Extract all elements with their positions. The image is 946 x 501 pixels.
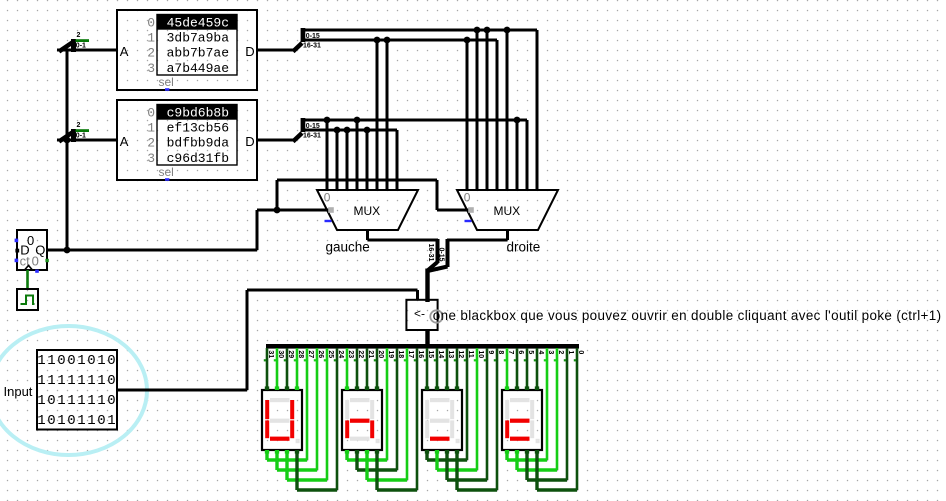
wire S3 leg corner x537 (536, 30, 539, 190)
svg-text:1: 1 (37, 373, 45, 389)
svg-text:abb7b7ae: abb7b7ae (167, 46, 229, 61)
svg-text:4: 4 (537, 350, 544, 354)
wire bus bit 17 (404, 348, 414, 480)
wire bus bit 11 (464, 348, 474, 460)
wire counter Q to muxes (47, 210, 330, 250)
wire bus bit 20 (374, 348, 384, 390)
svg-text:<-: <- (414, 306, 425, 320)
splitter S4 ROM U2 output (293, 118, 527, 142)
svg-text:24: 24 (337, 350, 344, 358)
svg-text:0: 0 (324, 191, 331, 205)
svg-text:13: 13 (447, 350, 454, 358)
wire bus bit 14 (434, 348, 444, 390)
svg-text:1: 1 (147, 121, 155, 136)
svg-text:1: 1 (37, 393, 45, 409)
svg-text:10: 10 (477, 350, 484, 358)
counter U3 (15, 230, 49, 273)
junction S3 x467 (464, 37, 471, 190)
blackbox U4 (406, 300, 437, 330)
svg-text:45de459c: 45de459c (167, 16, 229, 31)
svg-text:1: 1 (567, 350, 574, 354)
svg-text:0-1: 0-1 (76, 132, 86, 139)
wire S4 leg corner x397 (396, 130, 399, 190)
svg-text:sel: sel (159, 165, 174, 179)
wire bus bit 7 (504, 348, 514, 390)
splitter S3 ROM U1 output (293, 28, 537, 52)
svg-text:9: 9 (487, 350, 494, 354)
svg-text:1: 1 (67, 393, 75, 409)
svg-text:D: D (245, 44, 254, 59)
svg-text:12: 12 (457, 350, 464, 358)
svg-text:2: 2 (147, 46, 155, 61)
svg-text:17: 17 (407, 350, 414, 358)
svg-text:1: 1 (147, 31, 155, 46)
svg-text:1: 1 (87, 413, 95, 429)
svg-text:D: D (245, 134, 254, 149)
wire bus bit 15 (424, 348, 434, 390)
wire select to right mux (277, 180, 470, 210)
wire display 2 bottom pins wrap (345, 450, 417, 490)
wire ROM U2 D output (257, 139, 294, 142)
svg-text:6: 6 (517, 350, 524, 354)
svg-text:one blackbox que vous pouvez o: one blackbox que vous pouvez ouvrir en d… (433, 308, 942, 323)
wire bus bit 4 (534, 348, 544, 390)
svg-text:1: 1 (77, 373, 85, 389)
junction S3 x387 (384, 37, 391, 190)
wire bus bit 12 (454, 348, 464, 390)
wire bus bit 26 (314, 348, 324, 470)
svg-text:droite: droite (507, 240, 541, 255)
svg-text:MUX: MUX (494, 204, 521, 218)
junction S4 x337 (334, 127, 341, 190)
wire bus bit 13 (444, 348, 454, 390)
svg-text:0: 0 (97, 413, 105, 429)
subcircuit anchor mark (430, 310, 442, 322)
label Input (4, 384, 33, 399)
svg-text:0: 0 (57, 353, 65, 369)
svg-text:30: 30 (277, 350, 284, 358)
svg-text:26: 26 (317, 350, 324, 358)
svg-text:0: 0 (67, 413, 75, 429)
svg-text:1: 1 (57, 413, 65, 429)
wire blackbox output bus (425, 329, 429, 346)
junction S3 x487 (484, 27, 491, 190)
svg-text:1: 1 (57, 373, 65, 389)
junction S3 x507 (504, 27, 511, 190)
wire bus bit 23 (344, 348, 354, 390)
svg-text:23: 23 (347, 350, 354, 358)
svg-text:1: 1 (87, 393, 95, 409)
7-segment display DS4 showing c (502, 390, 542, 450)
svg-text:20: 20 (377, 350, 384, 358)
clock CLK1 (17, 289, 38, 310)
svg-text:0: 0 (47, 393, 55, 409)
svg-text:2: 2 (147, 136, 155, 151)
svg-text:16-31: 16-31 (303, 43, 321, 50)
svg-text:2: 2 (77, 122, 81, 129)
svg-text:29: 29 (287, 350, 294, 358)
svg-text:0: 0 (47, 413, 55, 429)
svg-text:19: 19 (387, 350, 394, 358)
svg-text:MUX: MUX (354, 204, 381, 218)
svg-text:a7b449ae: a7b449ae (167, 61, 229, 76)
splitter S1 bits 0-1 to ROM U1 A (59, 32, 89, 52)
wire S4 leg corner x527 (526, 120, 529, 190)
svg-text:1: 1 (77, 393, 85, 409)
svg-text:1: 1 (37, 353, 45, 369)
svg-text:1: 1 (37, 413, 45, 429)
svg-text:sel: sel (159, 75, 174, 89)
svg-text:11: 11 (467, 350, 474, 358)
wire ROM U1 address y=50 (57, 49, 117, 52)
junction S4 x357 (354, 117, 361, 190)
ROM U1 (117, 10, 257, 91)
svg-text:22: 22 (357, 350, 364, 358)
svg-text:0-15: 0-15 (306, 33, 320, 40)
wire bus bit 19 (384, 348, 394, 460)
wire bus bit 0 (574, 348, 584, 490)
svg-text:15: 15 (427, 350, 434, 358)
svg-text:0: 0 (87, 353, 95, 369)
svg-text:0: 0 (147, 106, 155, 121)
multiplexer MUX1 gauche (317, 190, 418, 230)
wire bus bit 29 (284, 348, 294, 390)
wire S3 leg corner x497 (496, 40, 499, 190)
7-segment display DS1 showing U (262, 390, 302, 450)
junction select node (274, 207, 281, 214)
junction S3 x477 (474, 27, 481, 190)
wire bus bit 25 (324, 348, 334, 480)
label droite (507, 240, 541, 255)
junction S4 x327 (324, 117, 331, 190)
svg-text:gauche: gauche (326, 240, 370, 255)
display 4 top pin caps (505, 386, 539, 390)
input register Input (37, 350, 117, 430)
wire bus bit 31 (264, 348, 274, 390)
svg-text:1: 1 (47, 373, 55, 389)
svg-text:0: 0 (67, 353, 75, 369)
svg-text:5: 5 (527, 350, 534, 354)
wire ROM U1 D output (257, 49, 294, 52)
svg-text:25: 25 (327, 350, 334, 358)
highlight ellipse (0, 326, 147, 455)
wire bus bit 2 (554, 348, 564, 470)
svg-text:16-31: 16-31 (427, 244, 434, 262)
svg-text:8: 8 (497, 350, 504, 354)
wire bus bit 28 (294, 348, 304, 390)
svg-text:0: 0 (107, 373, 115, 389)
wire bus bit 21 (364, 348, 374, 390)
svg-text:1: 1 (87, 373, 95, 389)
svg-text:0: 0 (107, 393, 115, 409)
svg-text:1: 1 (47, 353, 55, 369)
svg-text:14: 14 (437, 350, 444, 358)
wire bus bit 6 (514, 348, 524, 390)
svg-text:27: 27 (307, 350, 314, 358)
multiplexer MUX2 droite (457, 190, 558, 230)
wire Input to blackbox (117, 290, 418, 390)
wire ROM U2 address y=140 (57, 139, 117, 142)
svg-text:0-15: 0-15 (438, 248, 445, 262)
svg-text:Input: Input (4, 384, 33, 399)
svg-text:0: 0 (32, 254, 39, 269)
svg-text:c96d31fb: c96d31fb (167, 151, 229, 166)
ROM U2 (117, 100, 257, 181)
svg-text:2: 2 (77, 32, 81, 39)
svg-text:3: 3 (147, 61, 155, 76)
display 3 top pin caps (425, 386, 459, 390)
wire bus bit 3 (544, 348, 554, 460)
svg-text:1: 1 (67, 373, 75, 389)
svg-text:31: 31 (267, 350, 274, 358)
wire display 3 bottom pins wrap (425, 450, 497, 490)
svg-text:1: 1 (97, 373, 105, 389)
junction splitter S2 tap (64, 137, 71, 144)
svg-text:0: 0 (107, 353, 115, 369)
svg-text:28: 28 (297, 350, 304, 358)
blackbox poke hint arrow (414, 306, 425, 320)
svg-text:3db7a9ba: 3db7a9ba (167, 31, 230, 46)
svg-text:1: 1 (57, 393, 65, 409)
svg-text:1: 1 (97, 393, 105, 409)
junction S3 x377 (374, 37, 381, 190)
wire bus bit 1 (564, 348, 574, 480)
splitter S6 spine 32-bit fanout (266, 344, 579, 349)
label gauche (326, 240, 370, 255)
svg-text:0: 0 (577, 350, 584, 354)
svg-text:18: 18 (397, 350, 404, 358)
svg-text:A: A (120, 44, 129, 59)
junction counter Q node (64, 247, 71, 254)
svg-text:2: 2 (557, 350, 564, 354)
wire clock to counter (26, 270, 29, 290)
wire bus bit 5 (524, 348, 534, 390)
wire counter Q bus vertical (66, 50, 69, 250)
svg-text:bdfbb9da: bdfbb9da (167, 136, 230, 151)
wire bus bit 24 (334, 348, 344, 490)
svg-text:1: 1 (97, 353, 105, 369)
svg-text:1: 1 (107, 413, 115, 429)
7-segment display DS2 showing n (342, 390, 382, 450)
svg-text:0: 0 (464, 191, 471, 205)
wire display 4 bottom pins wrap (505, 450, 577, 490)
wire bus bit 27 (304, 348, 314, 460)
junction S4 x347 (344, 127, 351, 190)
annotation text (433, 308, 942, 323)
svg-text:0-15: 0-15 (306, 123, 320, 130)
svg-text:0: 0 (147, 16, 155, 31)
svg-text:1: 1 (77, 413, 85, 429)
svg-text:3: 3 (547, 350, 554, 354)
splitter S5 merge 16+16 to 32 (425, 239, 447, 302)
wire bus bit 8 (494, 348, 504, 490)
wire MUX2 output (447, 230, 508, 240)
wire display 1 bottom pins wrap (265, 450, 337, 490)
wire bus bit 30 (274, 348, 284, 390)
svg-text:1: 1 (77, 353, 85, 369)
junction S4 x367 (364, 127, 371, 190)
svg-text:A: A (120, 134, 129, 149)
wire bus bit 10 (474, 348, 484, 470)
svg-text:3: 3 (147, 151, 155, 166)
svg-text:16-31: 16-31 (303, 133, 321, 140)
wire bus bit 9 (484, 348, 494, 480)
svg-text:7: 7 (507, 350, 514, 354)
display 1 top pin caps (265, 386, 299, 390)
display 2 top pin caps (345, 386, 379, 390)
svg-text:c9bd6b8b: c9bd6b8b (167, 106, 229, 121)
svg-text:0-1: 0-1 (76, 42, 86, 49)
svg-text:21: 21 (367, 350, 374, 358)
junction S4 x517 (514, 117, 521, 190)
wire MUX1 output (368, 230, 439, 240)
svg-text:ef13cb56: ef13cb56 (167, 121, 229, 136)
wire bus bit 22 (354, 348, 364, 390)
splitter S2 bits 0-1 to ROM U2 A (59, 122, 89, 142)
wire bus bit 16 (414, 348, 424, 490)
7-segment display DS3 showing _ (422, 390, 462, 450)
wire bus bit 18 (394, 348, 404, 470)
svg-text:16: 16 (417, 350, 424, 358)
